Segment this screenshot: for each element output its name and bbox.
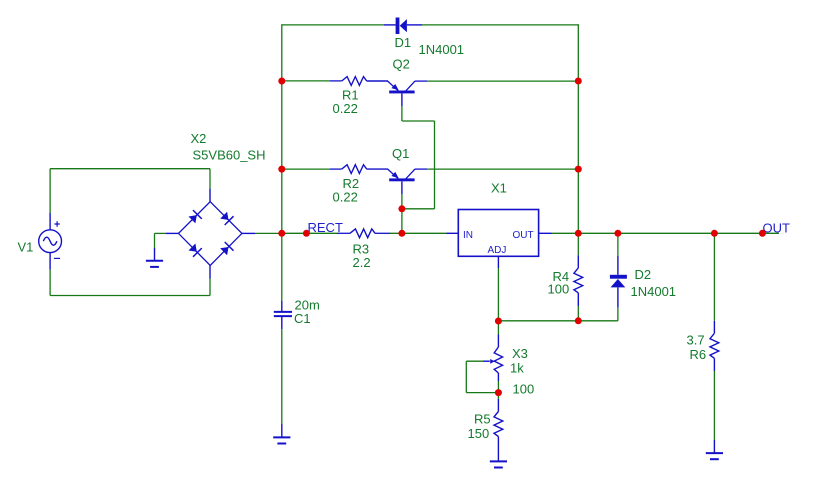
svg-text:2.2: 2.2 bbox=[353, 255, 371, 270]
node junction dot 1 bbox=[278, 78, 285, 85]
wire C1 stubs bbox=[281, 301, 283, 311]
wire row1 right bbox=[415, 80, 427, 82]
svg-text:0.22: 0.22 bbox=[333, 101, 358, 116]
svg-text:1N4001: 1N4001 bbox=[419, 42, 465, 57]
wire X1 ADJ down bbox=[497, 256, 499, 268]
diode D1 bbox=[384, 24, 396, 26]
wire bridge left to ground bbox=[166, 232, 179, 234]
svg-text:150: 150 bbox=[468, 426, 490, 441]
svg-text:R6: R6 bbox=[690, 347, 707, 362]
wire X1 out to OUT node bbox=[552, 232, 780, 234]
svg-text:V1: V1 bbox=[18, 240, 34, 255]
node junction dot 2 bbox=[278, 166, 285, 173]
node junction dot 5 bbox=[398, 205, 405, 212]
wire top bus bbox=[282, 24, 384, 26]
node junction dot 7 bbox=[575, 78, 582, 85]
wire X3 bottom stub bbox=[497, 373, 499, 381]
svg-text:OUT: OUT bbox=[763, 220, 791, 235]
wire X3 wiper loop bbox=[466, 360, 483, 362]
svg-text:0.22: 0.22 bbox=[333, 189, 358, 204]
wire row2 right bbox=[415, 168, 427, 170]
bridge diode top-right bbox=[220, 212, 228, 220]
ground below C1 bbox=[273, 436, 290, 438]
svg-text:20m: 20m bbox=[295, 297, 320, 312]
svg-text:Q1: Q1 bbox=[392, 146, 409, 161]
wire RECT row bbox=[282, 232, 337, 234]
node junction dot 11 bbox=[711, 230, 718, 237]
wire R5 stubs bbox=[497, 393, 499, 399]
wire bottom row bbox=[498, 320, 618, 322]
svg-text:C1: C1 bbox=[294, 311, 311, 326]
wire row1 left bbox=[282, 80, 330, 82]
potentiometer X3 bbox=[494, 347, 502, 373]
wire D2 stubs bbox=[617, 233, 619, 256]
svg-text:X3: X3 bbox=[512, 346, 528, 361]
svg-text:D1: D1 bbox=[395, 35, 412, 50]
node junction dot 8 bbox=[575, 166, 582, 173]
wire Q2 base link bbox=[401, 93, 403, 106]
resistor R3 bbox=[350, 229, 375, 238]
wire V1 loop bottom bbox=[49, 253, 51, 270]
svg-text:100: 100 bbox=[513, 382, 535, 397]
svg-text:D2: D2 bbox=[635, 267, 652, 282]
wire X3 top stub bbox=[497, 321, 499, 335]
svg-text:100: 100 bbox=[548, 281, 570, 296]
node junction dot 10 bbox=[614, 230, 621, 237]
node junction dot 4 bbox=[303, 230, 310, 237]
svg-text:R5: R5 bbox=[474, 412, 491, 427]
resistor R2 bbox=[342, 165, 367, 174]
regulator X1 box bbox=[458, 210, 538, 257]
svg-text:S5VB60_SH: S5VB60_SH bbox=[193, 148, 266, 163]
svg-text:1k: 1k bbox=[510, 361, 524, 376]
resistor R1 bbox=[342, 77, 367, 86]
ground below R6 bbox=[706, 452, 723, 454]
bridge diode bottom-left bbox=[189, 244, 197, 252]
bridge diode top-left bbox=[189, 215, 197, 223]
svg-text:ADJ: ADJ bbox=[488, 245, 507, 256]
svg-text:X2: X2 bbox=[191, 131, 207, 146]
source V1 bbox=[39, 221, 62, 258]
bridge diode bottom-right bbox=[220, 247, 228, 255]
resistor R5 bbox=[494, 412, 503, 437]
node junction dot 13 bbox=[495, 318, 502, 325]
wire left bus vertical bbox=[281, 24, 283, 301]
bridge rectifier X2 bbox=[179, 202, 242, 266]
svg-text:RECT: RECT bbox=[308, 220, 343, 235]
ground at bridge bbox=[146, 260, 163, 262]
svg-text:OUT: OUT bbox=[513, 230, 534, 241]
wire Q1 base down to RECT bbox=[401, 181, 403, 194]
svg-text:1N4001: 1N4001 bbox=[631, 284, 677, 299]
node junction dot 12 bbox=[759, 230, 766, 237]
svg-text:IN: IN bbox=[463, 230, 473, 241]
resistor R6 bbox=[710, 333, 719, 358]
diode D2 bbox=[610, 275, 627, 279]
svg-text:X1: X1 bbox=[491, 180, 507, 195]
node junction dot 6 bbox=[398, 230, 405, 237]
transistor Q2 bbox=[389, 91, 414, 94]
node junction dot 9 bbox=[575, 230, 582, 237]
wire R6 column bbox=[713, 233, 715, 320]
node junction dot 15 bbox=[495, 389, 502, 396]
transistor Q1 bbox=[389, 178, 414, 181]
wire R4 stubs bbox=[577, 233, 579, 255]
wire bridge right to bus bbox=[242, 232, 255, 234]
capacitor C1 bbox=[274, 311, 292, 313]
resistor R4 bbox=[574, 268, 583, 293]
ground below R5 bbox=[490, 460, 507, 462]
wire row2 left bbox=[282, 168, 330, 170]
wire right bus vertical bbox=[577, 24, 579, 233]
node junction dot 14 bbox=[575, 317, 582, 324]
node junction dot 3 bbox=[278, 230, 285, 237]
svg-text:3.7: 3.7 bbox=[687, 332, 705, 347]
wire V1 loop top bbox=[50, 168, 210, 170]
svg-text:Q2: Q2 bbox=[393, 57, 410, 72]
